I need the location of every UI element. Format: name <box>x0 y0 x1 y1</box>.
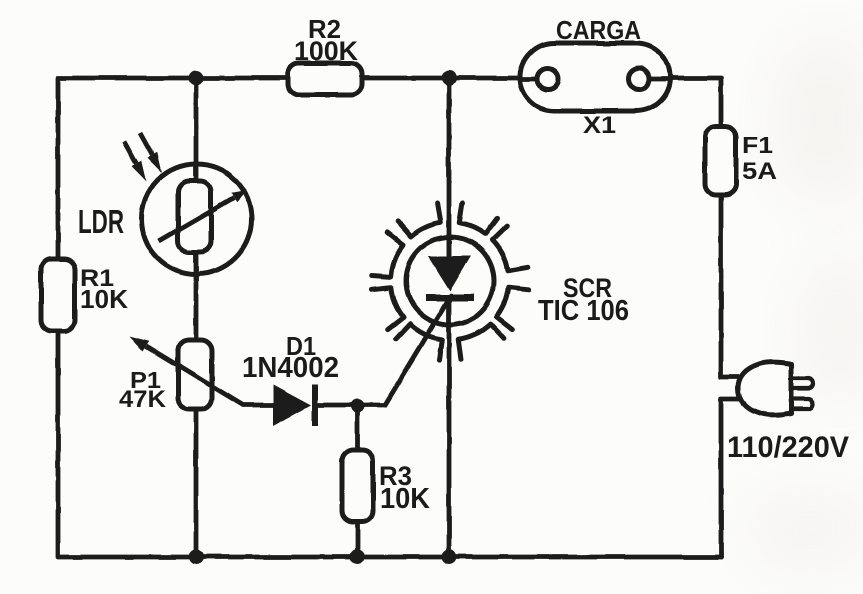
svg-text:100K: 100K <box>294 35 358 66</box>
junction node bottom R3 <box>350 550 365 565</box>
LDR circle <box>142 164 252 274</box>
svg-text:10K: 10K <box>80 286 128 314</box>
SCR case mark SSE <box>458 324 504 359</box>
light arrow a <box>124 141 136 164</box>
svg-text:F1: F1 <box>742 132 773 158</box>
svg-text:110/220V: 110/220V <box>727 431 849 464</box>
junction node bottom P1 <box>189 550 204 565</box>
wire: SCR cathode column <box>447 298 452 557</box>
junction node bottom SCR <box>442 550 457 565</box>
svg-text:X1: X1 <box>583 112 616 139</box>
SCR case mark ENE <box>492 226 527 271</box>
SCR case mark NNE <box>459 203 497 234</box>
junction node top SCR <box>442 71 457 86</box>
light arrow b <box>140 133 152 156</box>
wire: wiper to diode anode <box>243 403 273 408</box>
load right terminal circle <box>629 69 650 90</box>
LDR inner wire <box>194 164 199 274</box>
wire: diode cathode to gate bend <box>315 403 385 408</box>
svg-text:LDR: LDR <box>78 203 124 240</box>
svg-text:CARGA: CARGA <box>556 17 641 45</box>
wire: right rail fuse to plug upper stub <box>721 195 741 377</box>
SCR cathode bar <box>426 295 474 302</box>
LDR variability arrow <box>159 198 234 242</box>
LDR body <box>178 181 211 252</box>
svg-text:47K: 47K <box>119 386 166 413</box>
SCR case mark ESE <box>497 287 529 329</box>
wire: SCR gate diagonal <box>385 296 451 405</box>
resistor R2 <box>288 63 362 95</box>
load left terminal circle <box>538 69 559 90</box>
wire: load internal right <box>650 77 670 82</box>
wire: left rail below R1 to bottom-left corner, bottom rail <box>58 331 721 557</box>
svg-text:TIC 106: TIC 106 <box>538 295 629 327</box>
resistor R1 <box>41 259 75 331</box>
svg-text:1N4002: 1N4002 <box>242 352 339 384</box>
plug prong 2 <box>791 399 813 409</box>
junction node top-left <box>189 71 204 86</box>
junction node gate/R3 <box>351 399 365 413</box>
wire: R3 column <box>355 406 360 557</box>
SCR case mark WSW <box>371 287 403 329</box>
SCR case mark WNW <box>371 232 403 277</box>
diode D1 cathode bar <box>312 385 318 426</box>
SCR circle U1 <box>406 237 494 325</box>
wire: plug lower stub to bottom-right corner <box>721 399 741 557</box>
resistor R3 <box>342 450 373 522</box>
wire: SCR anode column <box>447 78 452 257</box>
SCR case mark NNW <box>398 203 441 237</box>
fuse F1 <box>705 126 736 195</box>
SCR anode wire inside <box>447 237 452 257</box>
svg-text:10K: 10K <box>380 483 430 515</box>
wire: top rail from top-left corner to load <box>58 78 520 259</box>
potentiometer P1 body <box>178 340 212 409</box>
SCR case mark SSW <box>396 324 442 359</box>
plug body <box>738 362 791 415</box>
wire: load internal left <box>520 77 537 82</box>
wire: LDR/P1 column <box>194 78 199 557</box>
diode D1 triangle <box>273 385 311 426</box>
SCR triangle <box>428 256 471 291</box>
svg-text:5A: 5A <box>742 158 777 185</box>
potentiometer P1 wiper arrow <box>146 346 243 405</box>
load X1 stadium CARGA <box>520 43 670 111</box>
plug prong 1 <box>791 379 813 389</box>
wire: top rail load to top-right corner, down to fuse <box>670 78 721 126</box>
